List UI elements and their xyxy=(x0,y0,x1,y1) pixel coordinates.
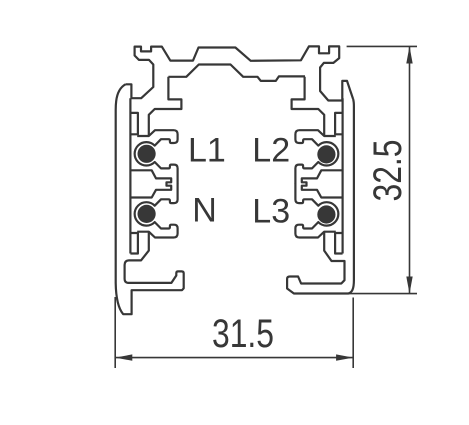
svg-text:31.5: 31.5 xyxy=(212,311,274,356)
svg-text:L1: L1 xyxy=(188,132,226,170)
svg-text:N: N xyxy=(192,192,217,230)
svg-text:L2: L2 xyxy=(252,132,290,170)
svg-text:L3: L3 xyxy=(252,193,290,231)
svg-text:32.5: 32.5 xyxy=(365,140,410,202)
